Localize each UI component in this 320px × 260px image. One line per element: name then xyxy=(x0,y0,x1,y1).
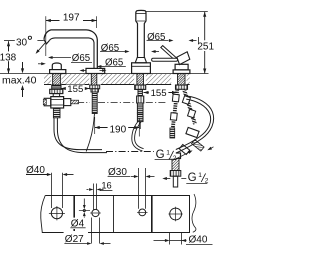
dimension 155 shower-to-mixer xyxy=(144,92,178,94)
mixer body xyxy=(175,64,188,70)
diverter hose smooth curve (inner) xyxy=(54,118,102,150)
deck bottom line xyxy=(44,84,51,86)
shower holder escutcheon xyxy=(132,63,151,74)
label O65 diverter escutcheon xyxy=(71,53,92,62)
hose A end nipple (threaded) xyxy=(170,128,175,138)
diverter left port xyxy=(44,98,51,106)
mixer lever horizontal rod xyxy=(152,58,178,61)
diverter right port xyxy=(64,99,71,106)
shower holder flare xyxy=(135,58,146,63)
svg-text:Ø65: Ø65 xyxy=(101,43,119,54)
label O65 shower holder escutcheon xyxy=(100,42,122,52)
diverter right stub (threaded) xyxy=(71,100,79,104)
dimension O27 hole 3 xyxy=(91,218,93,244)
plan strip right edge xyxy=(189,196,191,233)
svg-text:Ø65: Ø65 xyxy=(147,32,165,43)
label G1/2 shower outlet connection xyxy=(187,171,209,183)
svg-text:1: 1 xyxy=(166,149,170,156)
plan strip top edge xyxy=(45,195,190,197)
svg-text:max.40: max.40 xyxy=(2,75,37,87)
shower shank threaded upper xyxy=(138,89,142,96)
outlet elbow block xyxy=(169,153,181,159)
shower shank threaded lower xyxy=(137,113,143,122)
diverter escutcheon xyxy=(50,70,66,74)
outlet fitting hex nut xyxy=(170,171,181,177)
plan strip left break edge xyxy=(41,196,46,234)
shower shank connector xyxy=(137,96,144,103)
connection centerline diverter-to-shower xyxy=(79,102,90,104)
mixer hose B (ringed) xyxy=(184,89,195,124)
mixer lever diagonal rod xyxy=(161,46,177,60)
shower shank nut xyxy=(135,85,146,89)
dimension 190 spout-to-shower xyxy=(94,117,96,134)
spout shank nut xyxy=(90,85,100,89)
mixer shank in deck xyxy=(178,74,186,86)
plan divider line 3 xyxy=(151,196,153,233)
deck top surface line xyxy=(0,73,209,75)
plan divider line 2 xyxy=(113,196,115,233)
dimension O30 hole 4 xyxy=(138,168,140,209)
deck hatched section band xyxy=(44,74,51,85)
hose B hex fitting 1 xyxy=(182,96,190,105)
dimension 251 (overall height) xyxy=(146,11,208,13)
plan strip right break (wavy) xyxy=(192,194,196,232)
spout escutcheon xyxy=(86,68,105,73)
hose A hex fitting 1 xyxy=(172,94,179,102)
outlet tube (G1/2) xyxy=(173,176,177,187)
svg-text:Ø40: Ø40 xyxy=(26,165,45,176)
plan strip bottom edge xyxy=(42,232,190,234)
diverter shank (threaded) xyxy=(52,85,61,89)
dimension 155 diverter-to-spout xyxy=(61,88,90,90)
plan divider line 1 xyxy=(73,196,75,233)
dimension O40 hole 1 xyxy=(51,173,53,208)
diverter hose smooth curve (outer) xyxy=(57,118,107,153)
mixer shank nut xyxy=(176,85,188,89)
svg-text:30: 30 xyxy=(16,37,28,48)
label O4 pin hole xyxy=(70,218,86,229)
svg-text:155: 155 xyxy=(151,88,167,99)
hole 2 pin hole (O4) xyxy=(83,209,85,211)
dimension 16 pin offset xyxy=(93,184,95,210)
diverter knob xyxy=(52,63,61,70)
shower hose loop xyxy=(168,96,214,158)
mixer hose A (ringed) xyxy=(173,89,178,128)
spout shank in deck xyxy=(91,74,97,86)
diverter mounting nut xyxy=(50,89,63,93)
connection elbow block xyxy=(186,127,199,137)
elbow nipple G1/2 (threaded) xyxy=(192,140,205,152)
hose B hex fitting 2 xyxy=(188,109,196,118)
label O65 spout escutcheon xyxy=(104,57,126,66)
spout pull rod xyxy=(86,114,94,152)
svg-text:Ø40: Ø40 xyxy=(189,234,208,245)
diverter lower adapter (threaded) xyxy=(53,108,60,118)
hole 4 circle (O30) xyxy=(139,209,146,216)
dimension O40 hole 5 xyxy=(169,233,171,245)
diverter shank in deck xyxy=(53,74,61,86)
hose continuation centerline xyxy=(106,151,169,153)
dimension max.40 (deck thickness) xyxy=(2,75,42,86)
dimension 197 (spout reach) xyxy=(46,20,97,22)
label G1/2 mixer shower connection xyxy=(154,146,176,159)
hose A hex fitting 2 xyxy=(170,113,177,121)
svg-text:155: 155 xyxy=(67,84,83,95)
hand shower stick xyxy=(136,10,146,57)
dimension 138 (spout height) xyxy=(4,40,15,42)
svg-text:16: 16 xyxy=(101,180,111,190)
hole 1 circle (O40) xyxy=(51,208,62,219)
svg-text:1: 1 xyxy=(198,172,202,179)
dimension 30 degrees (spout outlet angle) xyxy=(15,37,31,46)
elbow lower fitting xyxy=(179,144,190,154)
svg-text:197: 197 xyxy=(63,12,80,23)
outlet fitting thread upper xyxy=(172,159,179,171)
label O65 mixer escutcheon xyxy=(146,31,168,41)
svg-text:G: G xyxy=(188,172,197,184)
diverter neck xyxy=(53,94,59,97)
mixer lever head xyxy=(177,52,190,65)
spout threaded rod xyxy=(92,92,97,114)
spout (tub spout profile) xyxy=(44,30,97,69)
svg-text:138: 138 xyxy=(0,52,17,63)
diverter valve body xyxy=(51,97,64,108)
hole 5 circle (O40 right) xyxy=(170,208,182,220)
shower hose curve xyxy=(132,122,143,151)
svg-text:190: 190 xyxy=(109,124,126,135)
hole 3 circle (O27) xyxy=(92,209,99,216)
shower shank in deck xyxy=(137,74,144,86)
mixer escutcheon xyxy=(173,70,190,74)
svg-text:251: 251 xyxy=(197,41,214,52)
